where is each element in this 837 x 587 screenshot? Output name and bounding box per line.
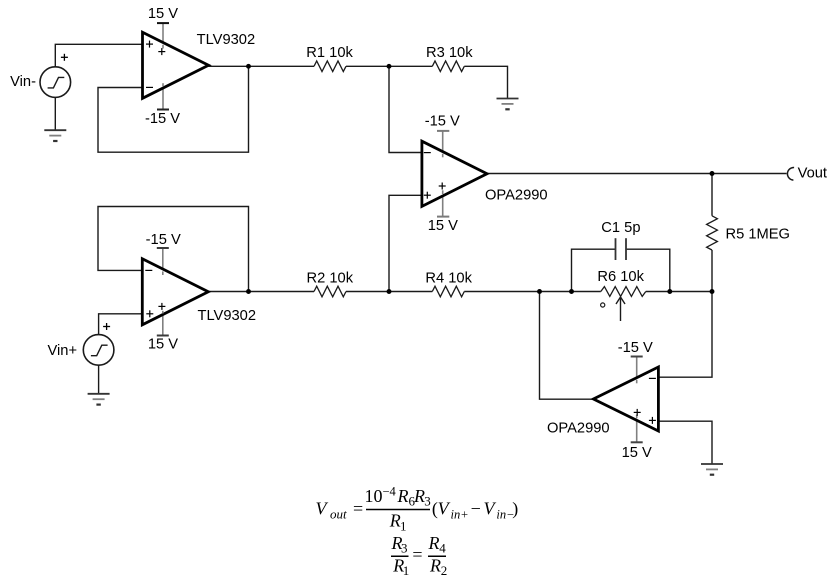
svg-text:in: in xyxy=(496,508,506,522)
svg-text:OPA2990: OPA2990 xyxy=(547,420,610,436)
svg-text:15 V: 15 V xyxy=(148,336,178,352)
svg-text:OPA2990: OPA2990 xyxy=(485,187,548,203)
svg-text:3: 3 xyxy=(424,494,431,509)
svg-text:R2 10k: R2 10k xyxy=(307,270,354,286)
svg-text:2: 2 xyxy=(441,563,448,578)
svg-text:=: = xyxy=(412,545,422,565)
svg-text:-15 V: -15 V xyxy=(146,232,181,248)
svg-text:−: − xyxy=(471,498,481,518)
svg-text:C1 5p: C1 5p xyxy=(601,220,640,236)
svg-text:−4: −4 xyxy=(383,485,397,499)
svg-text:in: in xyxy=(451,508,461,522)
svg-text:R: R xyxy=(389,511,401,531)
svg-text:TLV9302: TLV9302 xyxy=(197,32,256,48)
svg-text:10: 10 xyxy=(365,486,383,506)
svg-text:R5 1MEG: R5 1MEG xyxy=(726,227,790,243)
svg-text:R: R xyxy=(429,556,441,576)
svg-text:R3 10k: R3 10k xyxy=(426,45,473,61)
svg-text:Vin+: Vin+ xyxy=(48,343,78,359)
svg-text:+: + xyxy=(461,508,468,522)
svg-text:15 V: 15 V xyxy=(428,218,458,234)
svg-text:3: 3 xyxy=(401,541,408,556)
svg-text:=: = xyxy=(353,498,363,518)
svg-text:R1 10k: R1 10k xyxy=(306,45,353,61)
svg-text:Vin-: Vin- xyxy=(10,74,36,90)
svg-text:-15 V: -15 V xyxy=(425,114,460,130)
svg-text:15 V: 15 V xyxy=(622,445,652,461)
svg-text:15 V: 15 V xyxy=(148,6,178,22)
svg-text:1: 1 xyxy=(400,519,407,534)
svg-text:4: 4 xyxy=(439,541,446,556)
svg-text:Vout: Vout xyxy=(798,165,827,181)
svg-text:R4 10k: R4 10k xyxy=(425,270,472,286)
svg-text:R: R xyxy=(428,533,440,553)
svg-text:-15 V: -15 V xyxy=(145,111,180,127)
svg-text:): ) xyxy=(512,498,518,519)
svg-text:R6 10k: R6 10k xyxy=(597,269,644,285)
svg-text:R: R xyxy=(397,486,409,506)
svg-text:out: out xyxy=(330,507,347,522)
svg-text:1: 1 xyxy=(403,563,410,578)
svg-text:R: R xyxy=(413,486,425,506)
svg-text:-15 V: -15 V xyxy=(618,340,653,356)
svg-text:TLV9302: TLV9302 xyxy=(198,308,257,324)
